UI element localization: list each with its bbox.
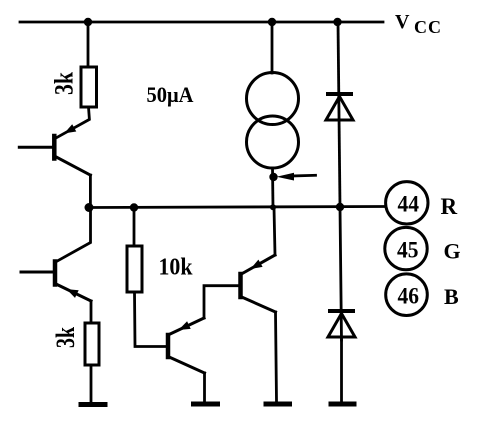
wire: node rail (output node) [88,207,385,208]
Q4 emitter [241,255,276,275]
wire: R2 bottom to ground [90,365,93,402]
pin circle 46 [386,274,428,316]
Q3 emitter [168,318,204,335]
diode D2 (cathode up) [328,311,355,337]
wire: rail down through diode D1 to node rail [338,22,340,208]
wire: R3 bottom to Q3 base [135,292,167,347]
node: dot rail/R3 [130,203,138,211]
node: junction dot top rail / R1 [84,18,92,26]
wire: current source bottom to node rail [271,168,274,208]
svg-text:3k: 3k [51,327,80,348]
node: junction dot top rail / diode D1 [333,18,341,26]
wire: D2 to ground [340,340,343,401]
Q2 emitter arrowhead [67,289,79,298]
svg-text:46: 46 [398,284,420,309]
Q3 emitter arrowhead [179,321,191,330]
wire: Q3 collector to ground [203,373,206,402]
svg-text:V: V [395,11,410,33]
ground G3 [266,402,290,407]
wire: Q3 emitter up to Q4 base [204,286,241,318]
Q1 base bar [52,136,57,159]
node: dot rail/Q1-Q2 [85,203,94,212]
svg-text:45: 45 [397,238,419,263]
transistor Q2 (PNP) [21,262,91,302]
node: dot at arrow tap [269,173,277,181]
svg-text:50μA: 50μA [147,82,195,107]
node: dot rail/diode column [336,203,344,211]
wire: Q4 collector to ground [276,312,277,401]
Q4 emitter arrowhead [251,260,263,269]
node: dot rail/current source [270,204,276,210]
Q4 collector [241,297,276,313]
wire: R1 bottom to Q1 emitter [55,107,89,139]
arrow: pointing left at current source output [277,173,295,181]
svg-text:10k: 10k [159,255,194,281]
Q2 base bar [53,262,58,285]
svg-text:CC: CC [414,17,442,37]
wire: arrow tail [290,174,316,177]
Q4 base bar [238,274,243,297]
diode D1 (cathode up) [326,94,353,120]
svg-text:R: R [441,194,458,219]
Q2 emitter [56,284,91,301]
wire: Q2 emitter to R2 [90,301,93,323]
pin circle 45 [385,227,427,269]
wire: node rail down through diode D2 [340,208,342,341]
Q1 emitter arrowhead [64,124,76,133]
ground G2 [194,402,218,407]
transistor Q1 (PNP) [19,124,90,175]
Q3 base bar [166,335,171,357]
resistor R1 3k [81,67,97,107]
current source I1 (50uA), two overlapping circles [247,73,299,125]
svg-text:G: G [444,239,461,264]
node: junction dot top rail / current source [268,18,276,26]
resistor R2 3k [85,323,99,365]
Q1 collector [54,156,90,175]
wire: node rail down to Q2 collector [56,208,91,263]
resistor R3 10k [127,246,142,292]
wire: rail to R1 top [87,22,90,67]
svg-text:44: 44 [398,192,420,217]
ground G1 [81,402,105,407]
wire: rail to current source [271,22,274,73]
wire: Q1 collector down to node rail [89,175,92,208]
wire: node rail to R3 top [133,208,136,247]
svg-text:B: B [444,284,459,309]
pin circle 44 [386,182,428,224]
transistor Q4 (PNP) [241,255,276,312]
Q1 base lead [19,146,54,149]
transistor Q3 (PNP) [168,318,205,373]
ground G4 [331,402,354,407]
Q3 collector [168,357,205,374]
wire: Q4 emitter up to node rail [274,208,275,256]
Q2 base lead [21,271,55,274]
svg-text:3k: 3k [50,72,79,95]
wire: VCC top rail [20,21,383,24]
